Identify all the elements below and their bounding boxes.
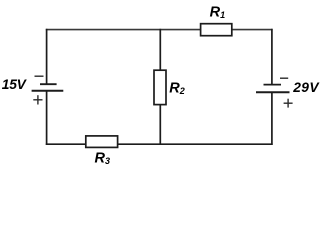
svg-text:15V: 15V — [2, 77, 28, 92]
battery V1 long plate (positive) — [32, 90, 64, 92]
resistor R1 — [201, 24, 232, 36]
wire: left branch upper — [46, 29, 48, 84]
resistor R3 — [86, 136, 118, 148]
wire: bottom right segment — [117, 143, 272, 145]
wire: top left segment — [46, 29, 201, 31]
resistor R2 — [154, 70, 166, 104]
battery V2 long plate (positive) — [256, 91, 290, 93]
svg-text:R3: R3 — [95, 151, 111, 167]
battery V1 short plate (negative) — [40, 83, 57, 85]
svg-text:R1: R1 — [210, 4, 226, 20]
wire: right branch lower — [271, 92, 273, 145]
wire: top right segment — [231, 29, 272, 31]
battery V1 plus sign — [33, 95, 42, 104]
wire: right branch upper — [271, 29, 273, 85]
wire: bottom left segment — [46, 143, 86, 145]
svg-text:R2: R2 — [169, 81, 185, 97]
battery V2 plus sign — [284, 99, 293, 108]
wire: middle branch lower — [159, 104, 161, 145]
battery V2 short plate (negative) — [264, 84, 282, 86]
wire: middle branch upper — [159, 29, 161, 71]
wire: left branch lower — [46, 91, 48, 145]
battery V1 minus sign — [35, 75, 44, 77]
battery V2 minus sign — [280, 77, 288, 79]
svg-text:29V: 29V — [292, 80, 320, 95]
